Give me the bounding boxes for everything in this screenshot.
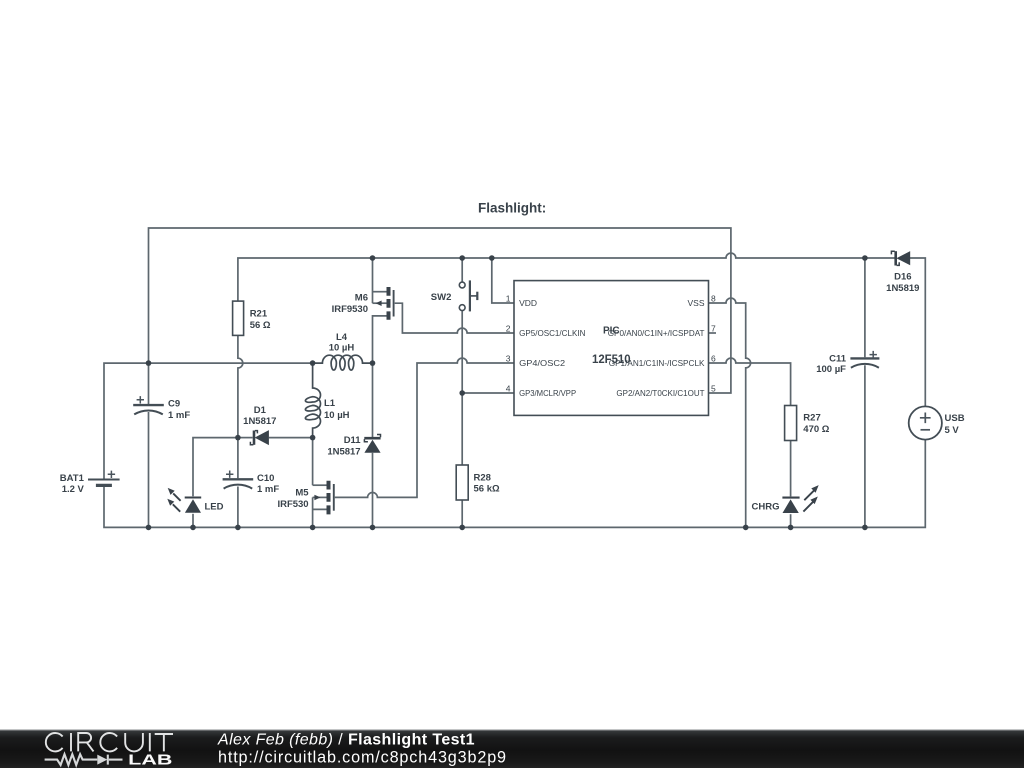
svg-text:7: 7 — [711, 324, 716, 334]
inductor L1 10uH (vertical) — [305, 363, 320, 438]
resistor R27 — [785, 406, 797, 441]
wire: battery top lead and mid rail y=363 to L1 — [104, 363, 313, 479]
wire: M5 middle stub — [313, 496, 327, 498]
junction: VDD rail / C11 top — [862, 255, 868, 261]
svg-text:1N5817: 1N5817 — [327, 447, 360, 458]
transistor M5 IRF530 (NMOS) — [314, 481, 333, 515]
wire: M6 gate to pin 2 (hop over SW2 column) — [395, 303, 514, 333]
svg-text:6: 6 — [711, 354, 716, 364]
junction: ground rail / R28 — [459, 525, 465, 531]
svg-text:L4: L4 — [336, 332, 348, 343]
junction: R21 / D1 cathode / LED / C10 — [235, 435, 241, 441]
svg-text:10 µH: 10 µH — [329, 343, 355, 354]
junction: VDD rail / M6 source — [370, 255, 376, 261]
svg-text:1N5817: 1N5817 — [243, 416, 276, 427]
svg-text:USB: USB — [945, 413, 965, 424]
wire: C11 leads — [864, 258, 866, 527]
svg-text:M6: M6 — [355, 292, 368, 303]
resistor R21 — [233, 301, 244, 335]
svg-text:1 mF: 1 mF — [168, 410, 190, 421]
wire: pin 1 from VDD rail node — [492, 258, 514, 303]
svg-text:100 µF: 100 µF — [816, 364, 846, 375]
wire: C9 leads — [148, 363, 150, 527]
junction: ground rail / C11 — [862, 525, 868, 531]
svg-text:D16: D16 — [894, 271, 911, 282]
svg-text:56 kΩ: 56 kΩ — [474, 483, 500, 494]
switch SW2 (pushbutton) — [459, 280, 477, 311]
svg-text:R27: R27 — [803, 412, 820, 423]
svg-text:L1: L1 — [324, 398, 336, 409]
svg-text:VSS: VSS — [687, 298, 704, 308]
wire: VDD top loop from node at (148.5,363) up over to pin 5 of U1 — [149, 228, 731, 393]
svg-text:2: 2 — [506, 324, 511, 334]
LED CHRG — [782, 485, 818, 513]
svg-text:http://circuitlab.com/c8pch43g: http://circuitlab.com/c8pch43g3b2p9 — [218, 749, 507, 767]
wire: CHRG LED bottom lead — [790, 514, 792, 527]
diode D1 1N5817 (schottky, pointing left) — [250, 430, 269, 445]
wire: from D16 anode to USB source top — [910, 258, 925, 406]
svg-text:5: 5 — [711, 384, 716, 394]
svg-text:470 Ω: 470 Ω — [803, 424, 829, 435]
junction: ground rail / LED — [190, 525, 196, 531]
battery BAT1 — [88, 471, 120, 486]
svg-text:1: 1 — [506, 294, 511, 304]
svg-text:LED: LED — [205, 501, 224, 512]
capacitor C9 — [133, 396, 164, 414]
junction: ground rail / CHRG LED — [788, 525, 794, 531]
svg-text:VDD: VDD — [519, 298, 537, 308]
junction: ground rail / VSS column — [743, 525, 749, 531]
junction: ground rail / D11 anode — [370, 525, 376, 531]
wire: M5 top stub — [313, 484, 327, 486]
svg-text:LAB: LAB — [128, 753, 172, 768]
svg-text:3: 3 — [506, 354, 511, 364]
svg-text:C10: C10 — [257, 473, 274, 484]
svg-text:D1: D1 — [254, 405, 267, 416]
wire: C10 leads — [237, 438, 239, 528]
junction: L4 right / M6 drain / D11 cathode — [370, 360, 376, 366]
svg-text:12F510: 12F510 — [592, 354, 631, 366]
svg-text:Alex Feb (febb) / Flashlight T: Alex Feb (febb) / Flashlight Test1 — [217, 732, 475, 749]
wire: M5 bottom stub and source column to ground — [313, 497, 327, 527]
svg-text:Flashlight:: Flashlight: — [478, 201, 546, 216]
svg-text:1N5819: 1N5819 — [886, 283, 919, 294]
inductor L4 10uH (horizontal) — [313, 355, 373, 370]
junction: mid rail / C9 / top loop — [146, 360, 152, 366]
capacitor C11 — [850, 351, 879, 368]
wire: R28 bottom lead — [461, 500, 463, 527]
svg-text:BAT1: BAT1 — [60, 473, 85, 484]
wire: SW2 top contact from VDD rail — [461, 258, 463, 282]
svg-text:R28: R28 — [474, 472, 491, 483]
footer banner — [0, 729, 1024, 768]
wire: D1 anode lead to L1/M5 node — [269, 437, 313, 439]
wire: D1 cathode lead — [238, 437, 253, 439]
junction: SW2 column / pin 4 — [459, 390, 465, 396]
svg-text:GP2/AN2/T0CKI/C1OUT: GP2/AN2/T0CKI/C1OUT — [616, 388, 704, 398]
resistor R28 — [456, 465, 468, 500]
svg-text:R21: R21 — [250, 308, 268, 319]
svg-text:5 V: 5 V — [945, 425, 960, 436]
junction: D1 anode / L1 bottom / M5 drain — [310, 435, 316, 441]
svg-text:GP3/MCLR/VPP: GP3/MCLR/VPP — [519, 388, 576, 398]
logo CIRCUIT (drawn glyphs), banner svg local y = page y - 729 — [46, 733, 173, 751]
wire: M6 source column from VDD rail — [372, 258, 374, 303]
capacitor C10 — [223, 471, 254, 489]
svg-text:56 Ω: 56 Ω — [250, 320, 271, 331]
wire: pin 7 stub — [709, 332, 717, 334]
wire: VDD rail y=258 from R21 top across to D16 cathode (hop over x=730.9) — [238, 253, 896, 301]
diode D16 1N5819 (schottky, pointing left) — [891, 251, 910, 265]
wire: D11 anode lead down to ground rail — [372, 453, 374, 528]
svg-text:10 µH: 10 µH — [324, 410, 350, 421]
wire: M5 drain lead up to D1/L1 node — [312, 438, 314, 486]
junction: ground rail / C10 — [235, 525, 241, 531]
svg-text:PIC: PIC — [603, 325, 620, 336]
svg-text:C9: C9 — [168, 399, 180, 410]
svg-text:M5: M5 — [295, 488, 309, 499]
wire: R21 bottom column with hop over mid rail, down to D1 node — [238, 335, 243, 437]
wire: R27 bottom lead to CHRG LED — [790, 441, 792, 497]
svg-text:IRF530: IRF530 — [277, 499, 308, 510]
svg-text:GP4/OSC2: GP4/OSC2 — [519, 358, 565, 368]
wire: M6 middle stub — [373, 302, 387, 304]
junction: VDD rail / SW2 top — [459, 255, 465, 261]
wire: M6 top stub — [373, 291, 387, 293]
wire: LED top lead over to D1/C10 node — [193, 438, 238, 497]
wire: SW2 bottom contact down to pin4 node and R28 — [461, 311, 463, 465]
junction: ground rail / C9 — [146, 525, 152, 531]
transistor M6 IRF9530 (PMOS) — [376, 287, 394, 320]
wire: pin 8 VSS over to ground column (hop over x=730.9), VSS column hop over pin6 wire — [709, 298, 751, 527]
svg-text:1.2 V: 1.2 V — [62, 484, 85, 495]
svg-text:GP0/AN0/C1IN+/ICSPDAT: GP0/AN0/C1IN+/ICSPDAT — [608, 328, 705, 338]
wire: bottom ground rail — [104, 440, 925, 528]
wire: M5 gate to pin 3 (hops over D11 and SW2 columns) — [335, 358, 514, 497]
svg-text:C11: C11 — [829, 353, 847, 364]
IC U1 PIC 12F510 box — [514, 281, 709, 416]
wire: D11 cathode lead from L4 node — [372, 363, 374, 437]
svg-text:1 mF: 1 mF — [257, 484, 279, 495]
junction: VDD rail / pin 1 — [489, 255, 495, 261]
diode D11 1N5817 (schottky, pointing up) — [364, 435, 380, 453]
wire: LED bottom lead — [192, 514, 194, 528]
wire: pin 6 over to R27 column (hop over x=730.9) — [709, 358, 791, 405]
svg-text:4: 4 — [506, 384, 511, 394]
svg-text:SW2: SW2 — [431, 292, 452, 303]
svg-text:GP5/OSC1/CLKIN: GP5/OSC1/CLKIN — [519, 328, 585, 338]
LED (left) — [167, 488, 201, 513]
junction: mid rail / L4 left / L1 top — [310, 360, 316, 366]
junction: ground rail / M5 source — [310, 525, 316, 531]
svg-text:CHRG: CHRG — [752, 501, 780, 512]
svg-text:IRF9530: IRF9530 — [332, 304, 368, 315]
logo resistor-diode squiggle — [45, 754, 123, 765]
svg-text:D11: D11 — [344, 435, 362, 446]
wire: pin 4 from SW2/R28 node — [462, 392, 514, 394]
svg-text:8: 8 — [711, 294, 716, 304]
wire: M6 drain stub down to L4 node — [373, 316, 387, 363]
voltage source USB — [909, 406, 942, 439]
